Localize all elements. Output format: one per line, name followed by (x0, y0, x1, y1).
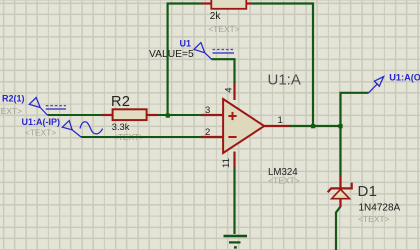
resistor R2 (102, 109, 157, 120)
op-amp U1:A (201, 82, 291, 168)
diode D1 zener (328, 176, 352, 207)
wire D1 bottom (336, 207, 341, 250)
svg-text:4: 4 (224, 87, 235, 92)
svg-text:D1: D1 (358, 183, 378, 200)
svg-text:<TEXT>: <TEXT> (0, 106, 22, 116)
svg-text:<TEXT>: <TEXT> (268, 176, 299, 186)
wire top right of 2k to feedback vertical (252, 4, 314, 127)
svg-text:R2: R2 (111, 94, 130, 110)
svg-text:U1:A(-IP): U1:A(-IP) (22, 117, 61, 127)
svg-text:U1:A: U1:A (268, 72, 301, 89)
svg-text:<TEXT>: <TEXT> (25, 127, 56, 137)
ground (224, 236, 248, 249)
wire top feedback loop left segment (168, 4, 203, 116)
svg-text:11: 11 (221, 158, 232, 168)
svg-text:<TEXT>: <TEXT> (208, 24, 239, 34)
svg-text:R2(1): R2(1) (2, 94, 25, 104)
svg-text:3: 3 (205, 105, 210, 116)
resistor R3 2k (202, 0, 252, 9)
wire pin3 row (48, 114, 202, 116)
wire output row (290, 125, 342, 127)
svg-text:2: 2 (205, 127, 210, 138)
wire D1 top (339, 126, 341, 177)
wire probe branch (341, 93, 369, 126)
generator R2(1) (DC) (29, 98, 66, 116)
junction node probe/D1 (338, 124, 342, 128)
probe U1:A(OP) arrow (369, 77, 384, 93)
wire pin2 row (81, 136, 202, 138)
svg-text:3.3k: 3.3k (112, 122, 130, 132)
svg-text:1N4728A: 1N4728A (359, 203, 401, 214)
junction node feedback (311, 124, 315, 128)
svg-text:1: 1 (278, 115, 283, 126)
junction node at R2 output / +input (166, 114, 170, 118)
wire DC generator stub (212, 59, 235, 82)
generator U1:A(-IP) (sine) (62, 121, 102, 137)
svg-text:<TEXT>: <TEXT> (358, 214, 389, 224)
wire pin11 to ground (233, 168, 235, 234)
svg-text:VALUE=5: VALUE=5 (149, 49, 194, 60)
generator U1 VALUE=5 (DC) (194, 43, 234, 60)
svg-text:U1: U1 (180, 39, 192, 49)
svg-text:U1:A(OP): U1:A(OP) (389, 73, 420, 83)
svg-text:2k: 2k (210, 11, 222, 22)
